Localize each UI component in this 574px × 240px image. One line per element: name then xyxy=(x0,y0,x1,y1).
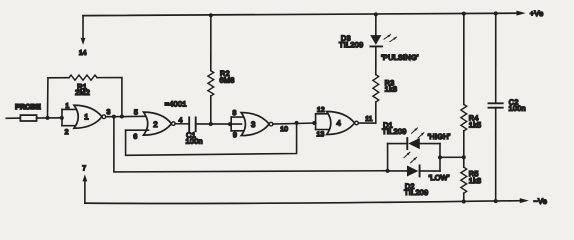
svg-text:6M8: 6M8 xyxy=(220,76,235,85)
node LED pair right xyxy=(438,155,442,159)
D2 ref labels xyxy=(404,182,428,197)
svg-text:‘HIGH’: ‘HIGH’ xyxy=(427,132,450,141)
LED D2 (points right) xyxy=(407,165,420,176)
wire gate1 output xyxy=(106,115,147,117)
resistor R2 xyxy=(208,71,214,96)
svg-text:13: 13 xyxy=(316,131,324,138)
wire D3 to rail xyxy=(375,14,377,35)
svg-text:12: 12 xyxy=(317,107,325,114)
svg-text:5: 5 xyxy=(134,109,138,116)
R5 value labels xyxy=(469,169,482,185)
pin 7 supply arrow xyxy=(82,174,87,203)
probe input wire xyxy=(6,117,20,119)
capacitor C1 xyxy=(189,117,196,131)
node R1 to gate1 output xyxy=(120,115,124,119)
svg-text:1k8: 1k8 xyxy=(385,85,398,94)
wire R2 bottom xyxy=(210,96,212,124)
svg-text:3: 3 xyxy=(251,120,255,129)
wire rail to R2 xyxy=(210,15,212,70)
gate U1c output bubble xyxy=(269,122,273,126)
LED D3 xyxy=(370,35,382,46)
gate U1a output bubble xyxy=(102,115,106,119)
wire R3 to D3 xyxy=(375,47,377,75)
D3 light arrows xyxy=(384,35,396,42)
svg-text:1: 1 xyxy=(84,112,88,121)
C2 value labels xyxy=(508,98,525,113)
R4 value labels xyxy=(469,113,482,129)
svg-text:7: 7 xyxy=(82,165,86,172)
node C2 bottom on rail xyxy=(494,199,498,203)
gate U1c input bracket pins 8,9 xyxy=(231,117,246,131)
D3 ref labels xyxy=(339,34,363,50)
svg-text:TIL209: TIL209 xyxy=(339,40,363,49)
svg-text:+Ve: +Ve xyxy=(530,9,544,18)
-Ve rail xyxy=(85,198,529,204)
wire gate4 output to R3 xyxy=(358,102,375,123)
wire LED pair to R4/R5 junction xyxy=(440,156,464,158)
svg-text:2M2: 2M2 xyxy=(75,88,90,97)
node R2 top on rail xyxy=(209,13,213,17)
wire rail to C2 xyxy=(495,13,497,102)
resistor R1 xyxy=(69,75,97,80)
+Ve rail xyxy=(83,11,526,16)
gate U1a input bracket pins 1,2 xyxy=(62,109,79,125)
svg-text:100n: 100n xyxy=(185,137,202,146)
svg-text:1: 1 xyxy=(65,103,69,110)
capacitor C2 xyxy=(489,103,503,107)
LED D1 (points left) xyxy=(407,138,420,149)
svg-text:=4001: =4001 xyxy=(165,99,187,108)
wire R1 loop left xyxy=(47,78,69,118)
wire R5 to rail xyxy=(463,193,465,201)
svg-text:6: 6 xyxy=(133,134,137,141)
gate U1b output bubble xyxy=(172,122,176,126)
resistor R4 xyxy=(461,104,467,131)
svg-text:TIL209: TIL209 xyxy=(404,188,428,197)
pin 14 supply arrow xyxy=(81,16,86,45)
svg-text:2: 2 xyxy=(153,120,157,129)
node D3 rail xyxy=(374,12,378,16)
wire gate3 output xyxy=(273,123,316,124)
wire C2 to bottom rail xyxy=(495,108,497,201)
svg-text:‘LOW’: ‘LOW’ xyxy=(428,173,449,182)
svg-text:2: 2 xyxy=(65,129,69,136)
D2 light arrows xyxy=(404,152,417,163)
svg-text:100n: 100n xyxy=(508,104,525,113)
node: probe junction xyxy=(45,116,49,120)
gate U1d output bubble xyxy=(355,121,359,125)
node R4 top on rail xyxy=(462,12,466,16)
node gate4 input xyxy=(312,121,316,125)
node gate3 input xyxy=(228,122,232,126)
svg-text:4: 4 xyxy=(336,119,341,128)
node R2 bottom xyxy=(209,122,213,126)
D1 light arrows xyxy=(411,128,423,138)
node feedback at gate3 output xyxy=(295,121,299,125)
wire R1 loop right xyxy=(97,78,122,117)
wire gate1 output down to LED pair xyxy=(114,117,388,172)
node R5 bottom on rail xyxy=(462,199,466,203)
svg-text:TIL209: TIL209 xyxy=(382,127,406,136)
wire pin6 stub xyxy=(126,129,149,131)
op gate U1a body xyxy=(74,105,102,128)
svg-text:8: 8 xyxy=(232,110,236,117)
wire D2 anode side xyxy=(388,170,407,172)
C1 value labels xyxy=(185,131,202,146)
svg-text:11: 11 xyxy=(365,116,372,123)
svg-text:10: 10 xyxy=(280,126,288,133)
probe tip box xyxy=(20,115,36,121)
R3 value labels xyxy=(385,78,398,93)
svg-text:14: 14 xyxy=(79,50,87,57)
R1 value labels xyxy=(75,82,90,97)
node to LED line xyxy=(112,115,116,119)
resistor R5 xyxy=(461,167,467,193)
node R4/R5 junction xyxy=(462,155,466,159)
svg-text:1k8: 1k8 xyxy=(469,176,482,185)
node LED pair left xyxy=(386,169,390,173)
wire box to gate 1 xyxy=(37,117,62,119)
svg-text:1k5: 1k5 xyxy=(469,120,482,129)
resistor R3 xyxy=(373,75,379,103)
gate U1b body xyxy=(143,112,171,135)
gate U1d body xyxy=(327,112,355,135)
svg-text:‘PULSING’: ‘PULSING’ xyxy=(381,53,419,62)
svg-text:9: 9 xyxy=(233,132,237,139)
feedback wire gate3 output to pin 6 xyxy=(126,123,297,156)
wire gate2 output to C1 xyxy=(175,123,189,125)
wire LED pair right vertical xyxy=(439,144,441,172)
wire D1 anode side xyxy=(388,143,408,145)
R2 value labels xyxy=(220,69,235,85)
wire LED pair left vertical xyxy=(387,144,389,171)
node gate1 input xyxy=(60,116,64,120)
node C2 top on rail xyxy=(494,11,498,15)
svg-text:3: 3 xyxy=(106,109,110,116)
wire C1 to gate 3 xyxy=(196,123,242,125)
wire D2 cathode side xyxy=(420,170,440,172)
wire rail to R4 xyxy=(463,14,465,105)
svg-text:−Ve: −Ve xyxy=(533,197,547,206)
wire R4 to R5 xyxy=(463,131,465,167)
D1 ref labels xyxy=(382,121,406,136)
wire D1 cathode side xyxy=(420,143,440,145)
svg-text:PROBE: PROBE xyxy=(15,102,41,111)
gate U1d input bracket pins 12,13 xyxy=(316,114,331,130)
gate U1c body xyxy=(241,113,269,136)
